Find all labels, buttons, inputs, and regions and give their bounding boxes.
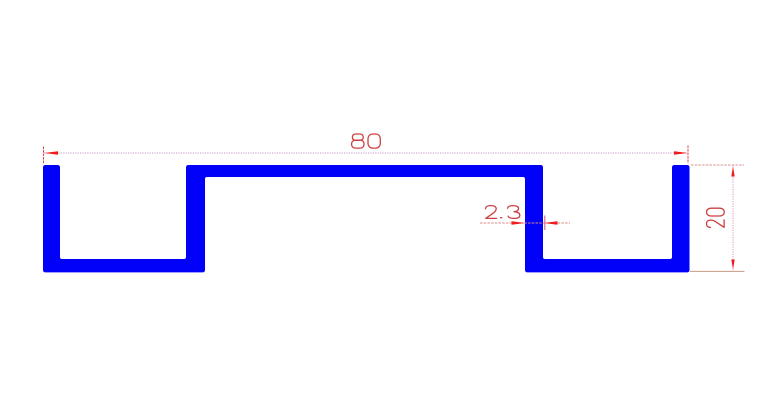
dimension 20: bottom arrow — [731, 260, 734, 270]
digit 2 — [486, 206, 497, 219]
dimension 20: bottom extension line — [690, 270, 745, 272]
dimension 20: top arrow — [731, 167, 734, 177]
dimension 2.3: text "2.3" — [486, 206, 520, 219]
dimension 80: dimension line (dashed) — [44, 152, 688, 154]
profile cross-section (blue hat channel) — [43, 165, 690, 272]
dimension 80: left arrow — [44, 151, 58, 154]
dimension 20: text "20" (rotated, reads bottom to top) — [707, 208, 725, 227]
decimal point — [501, 217, 502, 219]
dimension 80: left extension line — [43, 147, 45, 164]
dimension 20: top extension line — [691, 164, 744, 166]
digit 3 — [508, 206, 520, 219]
dimension 20: dimension line (vertical) — [732, 165, 734, 271]
dimension 80: right extension line — [687, 146, 689, 164]
dimension 2.3: right arrow — [544, 221, 558, 224]
dimension 2.3: left arrow — [512, 221, 526, 224]
dimension 80: right arrow — [674, 151, 688, 154]
dimension 2.3: extension tick — [544, 216, 546, 231]
dimension 80: text "80" — [352, 134, 381, 148]
digit 0 — [707, 208, 725, 216]
digit 0 — [368, 134, 380, 148]
digit 8 — [352, 134, 363, 140]
digit 2 — [707, 220, 725, 228]
dimension 2.3: dimension line — [480, 222, 570, 224]
